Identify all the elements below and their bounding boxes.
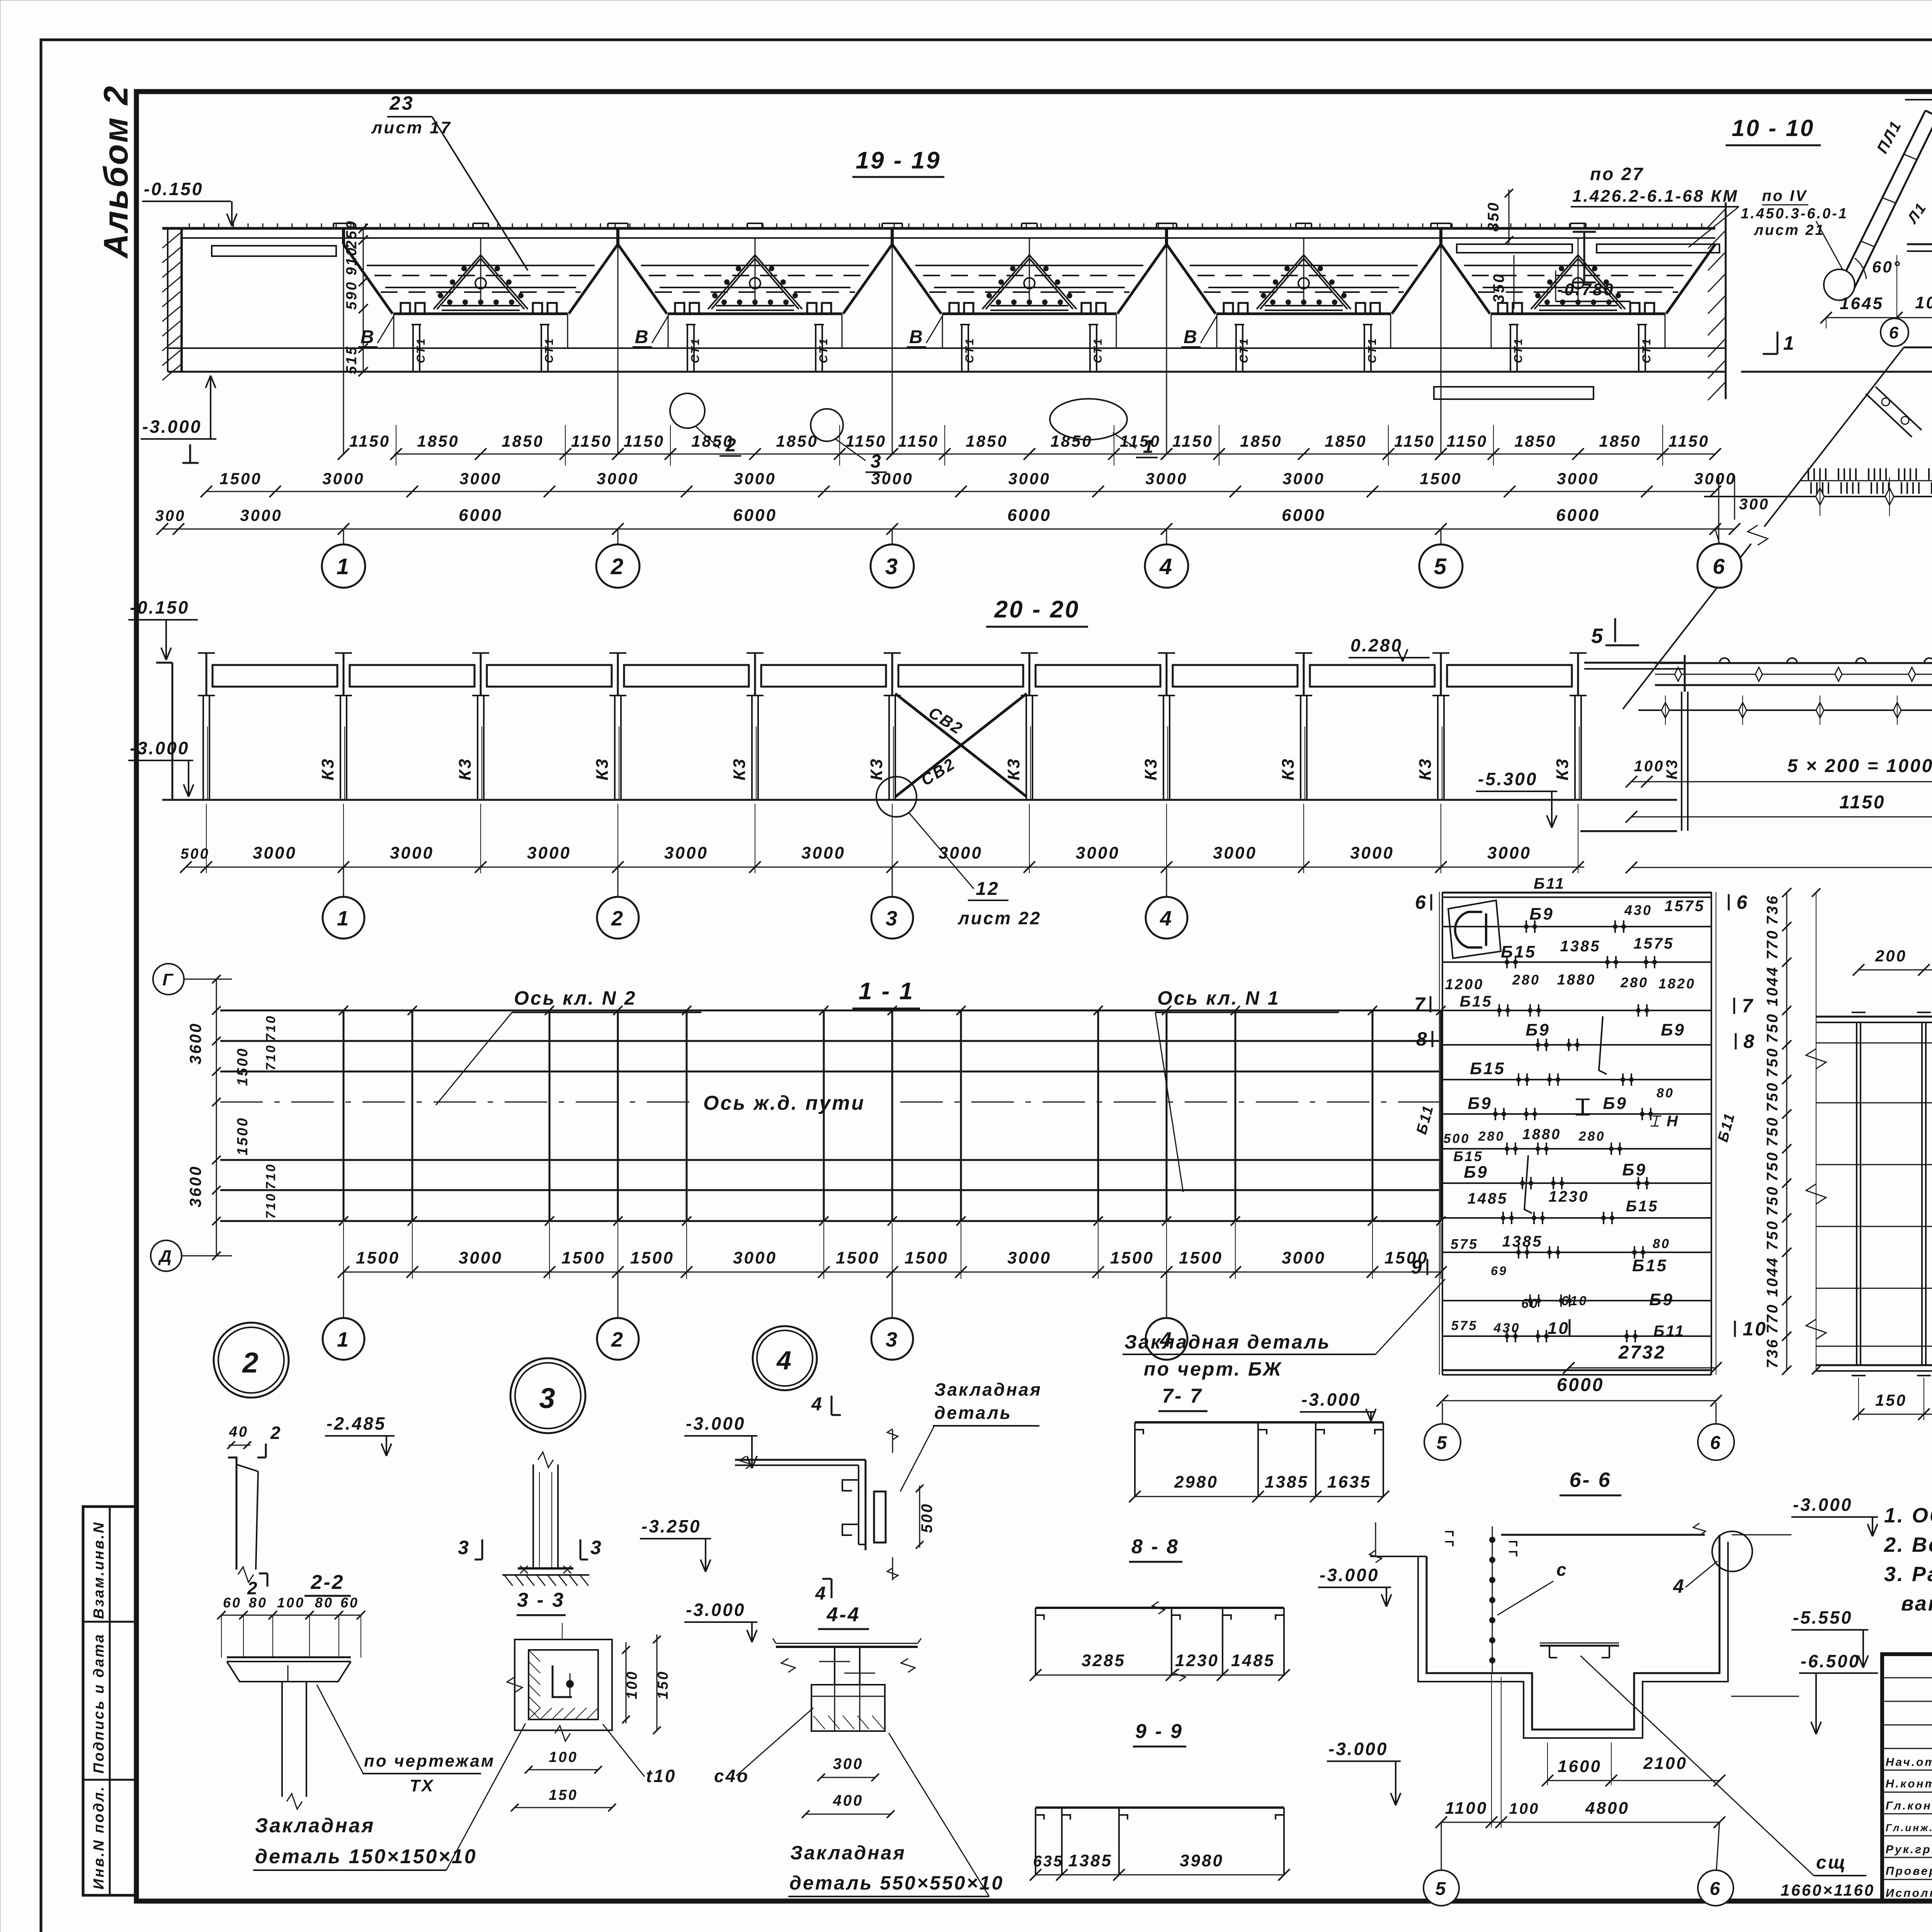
svg-text:1500: 1500 [836, 1248, 880, 1267]
svg-text:4: 4 [776, 1346, 793, 1375]
svg-text:80: 80 [1653, 1236, 1670, 1251]
20-20 column K3 #3 [480, 653, 482, 696]
node 4 channel bracket [735, 1459, 866, 1461]
svg-text:3000: 3000 [1487, 844, 1531, 862]
svg-text:по черт. БЖ: по черт. БЖ [1144, 1358, 1282, 1380]
svg-text:1500: 1500 [1110, 1248, 1154, 1267]
5-5 top dims 200 [1859, 969, 1932, 971]
hopper bay 3 inner lines [915, 265, 1143, 266]
svg-text:СТ1: СТ1 [1640, 337, 1653, 363]
svg-text:1150: 1150 [1668, 432, 1709, 450]
svg-text:4-4: 4-4 [826, 1604, 860, 1626]
5-5 grate horizontal bars [1816, 1043, 1932, 1044]
svg-text:Инв.N подл.: Инв.N подл. [91, 1785, 107, 1889]
svg-text:1485: 1485 [1231, 1651, 1275, 1670]
hopper bay 2 funnel slopes [618, 244, 667, 314]
svg-text:Б15: Б15 [1501, 942, 1536, 961]
svg-text:23: 23 [389, 92, 414, 114]
svg-text:Закладная: Закладная [934, 1379, 1042, 1400]
svg-text:850: 850 [1485, 201, 1502, 232]
svg-text:750: 750 [1764, 1151, 1781, 1182]
svg-text:1645: 1645 [1840, 294, 1884, 313]
svg-text:-3.000: -3.000 [1320, 1565, 1379, 1585]
hopper bay 5 column line [1440, 228, 1442, 454]
hopper bay 4 dashed reinforcement lines [1197, 275, 1410, 276]
svg-text:150: 150 [1875, 1391, 1907, 1409]
6-6 dims 1600 2100 [1548, 1780, 1719, 1781]
svg-text:80: 80 [249, 1595, 267, 1611]
svg-text:СТ1: СТ1 [1238, 337, 1250, 363]
svg-text:6000: 6000 [1282, 506, 1326, 525]
svg-text:19 - 19: 19 - 19 [855, 147, 941, 174]
svg-text:610: 610 [1561, 1294, 1588, 1308]
svg-text:6000: 6000 [733, 506, 777, 525]
svg-text:Гл.инж.пр.: Гл.инж.пр. [1886, 1822, 1932, 1833]
20-20 left wall [172, 663, 173, 800]
svg-text:Д: Д [158, 1247, 173, 1266]
svg-text:1150: 1150 [624, 432, 665, 450]
5-5 grate vertical bars [1856, 1022, 1857, 1365]
svg-text:60: 60 [340, 1595, 359, 1611]
beam layout jog lines [1599, 1016, 1607, 1074]
svg-text:1 - 1: 1 - 1 [859, 978, 914, 1005]
svg-text:69: 69 [1491, 1264, 1508, 1278]
svg-text:3000: 3000 [253, 844, 297, 862]
svg-text:3000: 3000 [240, 506, 282, 524]
svg-text:4: 4 [1673, 1575, 1685, 1597]
svg-text:3000: 3000 [1145, 469, 1187, 488]
svg-text:4: 4 [1160, 907, 1173, 930]
svg-text:5 × 200 = 1000: 5 × 200 = 1000 [1787, 756, 1932, 776]
svg-text:Закладная деталь: Закладная деталь [1124, 1331, 1331, 1353]
svg-text:280: 280 [1478, 1129, 1505, 1144]
svg-text:по чертежам: по чертежам [364, 1752, 495, 1770]
svg-text:1500: 1500 [1179, 1248, 1223, 1267]
plan 1-1 vertical beams [343, 1010, 345, 1221]
svg-text:3000: 3000 [939, 844, 983, 862]
hopper bay 5 support stems [1491, 314, 1492, 348]
svg-text:-3.000: -3.000 [1793, 1495, 1852, 1515]
svg-text:Б9: Б9 [1529, 905, 1554, 923]
svg-text:1850: 1850 [502, 432, 544, 450]
6-6 grid circles 5 6 [1441, 1822, 1442, 1870]
svg-text:2: 2 [611, 1328, 624, 1351]
svg-text:3600: 3600 [186, 1165, 204, 1207]
plan 1-1 row circle Д [151, 1240, 182, 1271]
hopper bay 4 A-frame insert [1257, 255, 1304, 309]
hopper bay 4 slab notch [1156, 223, 1157, 228]
svg-text:К3: К3 [1141, 757, 1160, 781]
svg-text:4: 4 [1159, 554, 1173, 579]
10-10 angle 60 [1855, 258, 1866, 279]
hopper bay 5 center hanger [1578, 238, 1579, 304]
10-10 stair ladder Л1 [1839, 111, 1925, 285]
hopper bay 1 inner lines [367, 265, 595, 266]
title block outer [1882, 1654, 1932, 1901]
hopper bay 2 center hanger [755, 238, 756, 304]
svg-text:6: 6 [1710, 1433, 1722, 1453]
svg-text:1500: 1500 [1420, 469, 1462, 488]
svg-text:Б9: Б9 [1526, 1020, 1550, 1039]
20-20 beam span 8 [1173, 665, 1298, 687]
svg-text:1150: 1150 [571, 432, 612, 450]
svg-text:1850: 1850 [1514, 432, 1556, 450]
svg-text:по 27: по 27 [1590, 164, 1644, 184]
node circle 4 big [753, 1326, 817, 1390]
svg-text:-2.485: -2.485 [327, 1413, 386, 1434]
svg-text:8: 8 [1416, 1028, 1429, 1050]
svg-text:8: 8 [1743, 1031, 1756, 1052]
hopper bay 4 center hanger [1303, 238, 1304, 304]
svg-text:1230: 1230 [1175, 1651, 1219, 1670]
10-10 floor line [1741, 371, 1932, 373]
svg-text:3000: 3000 [734, 469, 776, 488]
svg-text:Закладная: Закладная [255, 1815, 375, 1837]
svg-text:Б9: Б9 [1649, 1290, 1674, 1309]
svg-text:5: 5 [1437, 1433, 1449, 1453]
node 1 left diagonal edge [1764, 347, 1904, 527]
svg-text:80: 80 [1656, 1086, 1674, 1100]
svg-text:3. Разрезы 19 -19 ; 20 - 20: 3. Разрезы 19 -19 ; 20 - 20 занаркиро - [1884, 1563, 1932, 1586]
svg-text:сщ: сщ [1816, 1852, 1847, 1873]
svg-text:3000: 3000 [1008, 469, 1050, 488]
svg-text:3: 3 [458, 1537, 470, 1558]
20-20 right end post [1681, 692, 1682, 831]
svg-text:6: 6 [1889, 323, 1900, 342]
svg-text:7: 7 [1414, 993, 1427, 1015]
svg-text:750: 750 [1764, 1220, 1781, 1250]
svg-text:К3: К3 [318, 757, 337, 781]
19-19 left cantilever beam [212, 246, 336, 256]
svg-text:-0.150: -0.150 [130, 597, 189, 617]
svg-text:575: 575 [1451, 1236, 1478, 1252]
svg-text:-3.250: -3.250 [641, 1516, 701, 1536]
svg-text:280: 280 [1620, 975, 1648, 990]
20-20 beam span 5 [761, 665, 886, 687]
6-6 anchor bolts column [1492, 1526, 1493, 1673]
svg-text:3000: 3000 [1282, 1248, 1326, 1267]
hopper bay 1 A-frame insert [434, 255, 481, 309]
left margin stamp boxes [83, 1507, 135, 1895]
svg-text:8 - 8: 8 - 8 [1131, 1536, 1179, 1558]
6-6 bottom dim chain [1441, 1822, 1719, 1823]
svg-text:3000: 3000 [459, 469, 502, 488]
svg-text:СТ1: СТ1 [1512, 337, 1525, 363]
svg-text:1150: 1150 [845, 432, 886, 450]
hopper bay 4 column line [1166, 228, 1167, 454]
svg-text:с: с [1556, 1560, 1568, 1580]
svg-text:1880: 1880 [1557, 972, 1596, 988]
hopper bay 3 serrated bottom [942, 313, 1116, 315]
svg-text:Н.контр.: Н.контр. [1886, 1777, 1932, 1790]
svg-text:12: 12 [976, 879, 999, 899]
svg-text:590: 590 [344, 281, 360, 310]
svg-text:300: 300 [833, 1755, 864, 1772]
section 4-4 beam detail [776, 1643, 918, 1644]
5-5 grate squiggles left [1806, 1049, 1826, 1069]
svg-text:Взам.инв.N: Взам.инв.N [91, 1521, 107, 1619]
node 1 slab top edge [1904, 347, 1932, 349]
20-20 column K3 #5 [754, 653, 756, 696]
node 1 floor line with diamonds [1638, 709, 1932, 711]
node 2 dim 40 [229, 1445, 250, 1446]
svg-text:3000: 3000 [1007, 1248, 1051, 1267]
19-19 dimension chain row 1150-1850 [394, 454, 1715, 455]
svg-text:2-2: 2-2 [310, 1571, 344, 1594]
hopper bay 4 support stems [1216, 314, 1218, 348]
hopper bay 3 support stems [942, 314, 943, 348]
svg-text:1635: 1635 [1327, 1473, 1371, 1492]
svg-text:1485: 1485 [1468, 1190, 1508, 1207]
svg-text:100: 100 [549, 1749, 578, 1765]
svg-text:3000: 3000 [1282, 469, 1325, 488]
svg-text:3: 3 [885, 554, 899, 579]
svg-text:910: 910 [344, 246, 360, 275]
svg-text:150: 150 [655, 1670, 671, 1699]
svg-text:-5.550: -5.550 [1793, 1607, 1852, 1628]
20-20 column K3 #8 [1166, 653, 1168, 696]
svg-text:1: 1 [1783, 332, 1796, 354]
20-20 column K3 #6 [891, 653, 893, 696]
svg-text:В: В [909, 327, 924, 347]
svg-text:150: 150 [549, 1787, 578, 1803]
svg-text:1850: 1850 [417, 432, 459, 450]
svg-text:1: 1 [337, 1328, 350, 1351]
svg-text:Б15: Б15 [1626, 1198, 1659, 1215]
svg-text:Ось кл. N 1: Ось кл. N 1 [1157, 987, 1280, 1009]
hopper bay 3 center hanger [1029, 238, 1030, 304]
plan 1-1 bottom dim chain [344, 1272, 1441, 1273]
svg-text:3: 3 [539, 1382, 556, 1414]
svg-text:2732: 2732 [1618, 1342, 1666, 1363]
svg-text:4: 4 [815, 1583, 827, 1604]
svg-text:2: 2 [611, 554, 625, 579]
hopper bay 2 support stems [668, 314, 669, 348]
beam layout bolt tick pairs [1526, 920, 1527, 933]
node circle 2 big [214, 1323, 289, 1398]
svg-text:Подпись и дата: Подпись и дата [91, 1633, 107, 1774]
svg-text:Б11: Б11 [1653, 1323, 1685, 1340]
svg-text:-3.000: -3.000 [1301, 1389, 1361, 1410]
svg-text:1150: 1150 [1120, 432, 1161, 450]
hopper bay 2 dashed reinforcement lines [649, 275, 861, 276]
hopper bay 3 center circle [1024, 278, 1035, 289]
svg-text:3000: 3000 [322, 469, 364, 488]
svg-text:1200: 1200 [1445, 976, 1484, 993]
hopper bay 2 center circle [750, 278, 760, 289]
6-6 sump grate [1540, 1645, 1619, 1647]
beam layout bottom dims [1569, 1367, 1716, 1369]
19-19 dimension chain row 1500-3000 [206, 491, 1715, 492]
section 7-7 beam [1135, 1421, 1383, 1423]
node 1 anchor bolt line with diamonds [1704, 496, 1932, 497]
hopper bay 1 column line [343, 228, 344, 454]
svg-text:В: В [1184, 327, 1199, 347]
20-20 beam span 4 [624, 665, 749, 687]
svg-text:1000: 1000 [1915, 293, 1932, 312]
5-5 grate bottom chord [1816, 1364, 1932, 1366]
svg-text:Исполнил: Исполнил [1886, 1887, 1932, 1900]
node 1 railway ties band [1801, 480, 1932, 481]
hopper bay 1 center hanger [480, 238, 481, 304]
svg-text:200: 200 [1875, 947, 1907, 965]
svg-text:6: 6 [1415, 891, 1427, 913]
svg-text:К3: К3 [1279, 757, 1298, 781]
section 3-3 bottom dims 100 150 [529, 1769, 598, 1770]
svg-text:СТ1: СТ1 [963, 337, 976, 363]
svg-text:500: 500 [180, 846, 209, 862]
19-19 top slab [162, 227, 1715, 230]
6-6 pit profile outer contour [1418, 1542, 1728, 1738]
svg-text:1880: 1880 [1522, 1126, 1561, 1143]
svg-text:6000: 6000 [459, 506, 503, 525]
svg-text:635: 635 [1033, 1853, 1064, 1870]
hopper bay 2 inner lines [641, 265, 869, 266]
section 8-8 beam [1036, 1607, 1284, 1609]
svg-text:-3.000: -3.000 [142, 417, 202, 437]
svg-text:1. Общие указания на листах: 1. Общие указания на листах 1; 2 [1884, 1504, 1932, 1527]
20-20 beam span 10 [1447, 665, 1572, 687]
20-20 column K3 #11 [1577, 653, 1579, 696]
node 4 embedded plate [874, 1492, 886, 1543]
hopper bay 1 dashed reinforcement lines [374, 275, 587, 276]
plan 1-1 tick marks [339, 1006, 348, 1015]
svg-text:6: 6 [1713, 554, 1726, 578]
19-19 callout circle 2 [670, 393, 705, 428]
19-19 basement lines [168, 347, 1726, 349]
svg-text:Рук.гр.: Рук.гр. [1886, 1843, 1932, 1856]
svg-text:3000: 3000 [801, 844, 845, 862]
node 3 column stub [532, 1464, 534, 1568]
svg-text:4: 4 [811, 1394, 823, 1415]
svg-text:1850: 1850 [1050, 432, 1092, 450]
svg-text:СТ1: СТ1 [415, 337, 427, 363]
hopper bay 4 inner lines [1190, 265, 1418, 266]
svg-text:СТ1: СТ1 [543, 337, 556, 363]
svg-text:К3: К3 [1416, 757, 1435, 781]
10-10 center column [1583, 232, 1585, 282]
svg-text:1100: 1100 [1445, 1799, 1488, 1818]
svg-text:300: 300 [155, 507, 186, 524]
section 9-9 beam [1036, 1806, 1284, 1809]
6-6 node circle 4 [1712, 1531, 1752, 1571]
beam layout detail boundary lines [1442, 892, 1443, 1375]
svg-text:736: 736 [1764, 895, 1781, 925]
svg-text:100: 100 [1509, 1800, 1540, 1817]
19-19 left retaining wall with hatching [180, 228, 183, 372]
svg-text:СТ1: СТ1 [689, 337, 702, 363]
node 1 small bracket top left [1866, 394, 1912, 437]
svg-text:710: 710 [264, 1163, 278, 1190]
svg-text:3600: 3600 [186, 1022, 204, 1064]
svg-text:750: 750 [1764, 1116, 1781, 1147]
20-20 column K3 #10 [1440, 653, 1442, 696]
svg-text:3000: 3000 [733, 1248, 777, 1267]
svg-text:-0.150: -0.150 [144, 179, 203, 199]
svg-text:СТ1: СТ1 [817, 337, 830, 363]
svg-text:10 - 10: 10 - 10 [1732, 115, 1815, 141]
svg-text:500: 500 [1444, 1131, 1470, 1146]
svg-text:лист 22: лист 22 [957, 908, 1041, 928]
svg-text:СТ1: СТ1 [1366, 337, 1379, 363]
svg-text:Б15: Б15 [1470, 1059, 1505, 1078]
svg-text:3980: 3980 [1180, 1851, 1224, 1870]
svg-text:1385: 1385 [1502, 1233, 1543, 1250]
19-19 slab dowels [189, 223, 190, 228]
svg-text:7: 7 [1742, 995, 1754, 1017]
svg-text:3 - 3: 3 - 3 [517, 1589, 565, 1611]
svg-text:10: 10 [1743, 1318, 1767, 1340]
svg-text:3000: 3000 [1213, 844, 1257, 862]
20-20 column K3 #4 [617, 653, 619, 696]
svg-text:1044: 1044 [1764, 966, 1781, 1007]
svg-text:1.426.2-6.1-68 КМ: 1.426.2-6.1-68 КМ [1572, 187, 1738, 206]
svg-text:1150: 1150 [898, 432, 939, 450]
svg-text:1150: 1150 [349, 432, 390, 450]
svg-text:1500: 1500 [561, 1248, 605, 1267]
10-10 base circle [1824, 269, 1855, 300]
10-10 ladder landing [1905, 92, 1932, 94]
svg-text:710: 710 [264, 1192, 278, 1219]
svg-text:деталь: деталь [934, 1403, 1012, 1423]
svg-text:1150: 1150 [1394, 432, 1435, 450]
svg-text:750: 750 [1764, 1082, 1781, 1112]
svg-text:100: 100 [1634, 758, 1665, 775]
20-20 grid circles 1-4 [343, 867, 344, 897]
svg-text:6: 6 [1736, 891, 1749, 913]
svg-text:К3: К3 [593, 757, 612, 781]
svg-text:3000: 3000 [871, 469, 913, 488]
svg-text:750: 750 [1764, 1185, 1781, 1216]
svg-text:3: 3 [590, 1537, 603, 1558]
svg-text:3000: 3000 [1076, 844, 1120, 862]
hopper bay 2 A-frame insert [708, 255, 755, 309]
hopper bay 3 funnel slopes [892, 244, 941, 314]
svg-text:4800: 4800 [1585, 1799, 1629, 1818]
hopper bay 1 support stems [393, 314, 395, 348]
svg-text:100: 100 [277, 1595, 305, 1611]
beam layout outlet pipe detail [1448, 900, 1501, 958]
svg-text:80: 80 [315, 1595, 333, 1611]
20-20 node callout 12 лист 22 [876, 777, 917, 817]
svg-text:Проверил: Проверил [1886, 1865, 1932, 1878]
node 4 dim 500 [919, 1486, 920, 1548]
plan 1-1 grid circles 1-4 [343, 1272, 344, 1318]
svg-text:6000: 6000 [1556, 506, 1600, 525]
beam layout center I mark [1582, 1099, 1584, 1115]
svg-text:Нач.отд.: Нач.отд. [1886, 1756, 1932, 1769]
20-20 right thin slab 0.280 [1584, 662, 1685, 664]
svg-text:3000: 3000 [459, 1248, 503, 1267]
6-6 top slab line [1501, 1534, 1705, 1536]
svg-text:ваны на листе 7.: ваны на листе 7. [1901, 1592, 1932, 1615]
20-20 column K3 #9 [1303, 653, 1305, 696]
section 3-3 right dims 100 150 [626, 1642, 627, 1723]
svg-text:1230: 1230 [1549, 1188, 1589, 1205]
20-20 beam span 6 [898, 665, 1023, 687]
svg-text:1500: 1500 [219, 469, 262, 488]
20-20 dim chain 3000 [186, 867, 1584, 868]
19-19 grid circles 1-6 [343, 529, 344, 544]
svg-text:10: 10 [1548, 1319, 1570, 1338]
svg-text:1500: 1500 [905, 1248, 949, 1267]
19-19 dimension chain row 6000 [162, 529, 1735, 530]
19-19 callout oval 1 [1050, 399, 1127, 440]
svg-text:-3.000: -3.000 [130, 738, 189, 758]
hopper bay 5 dashed reinforcement lines [1472, 275, 1684, 276]
hopper bay 5 serrated bottom [1491, 313, 1665, 315]
hopper bay 1 slab notch [333, 223, 334, 228]
